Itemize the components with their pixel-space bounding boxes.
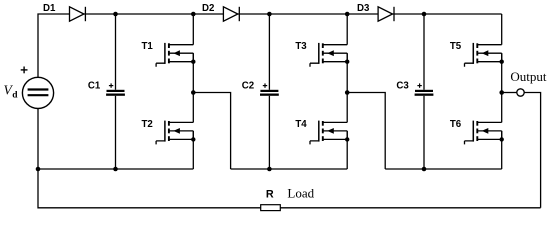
svg-text:T6: T6 xyxy=(450,119,462,130)
svg-text:C1: C1 xyxy=(88,81,101,92)
transistor T3 xyxy=(295,41,349,67)
junction C2 bottom xyxy=(267,167,272,172)
svg-text:C3: C3 xyxy=(396,81,409,92)
capacitor C2 xyxy=(242,81,279,96)
wire top rail to C2 xyxy=(268,14,270,90)
wire top rail to T1 drain xyxy=(192,14,194,45)
junction leg1 top xyxy=(191,12,196,17)
wire C3 to bottom rail xyxy=(423,96,425,169)
wire T5 source to midpoint to T6 drain xyxy=(501,53,503,122)
diode D2 xyxy=(202,3,239,21)
svg-text:D3: D3 xyxy=(357,3,370,14)
wire T6 source to bottom rail xyxy=(501,131,503,169)
wire C2 to bottom rail xyxy=(268,96,270,169)
svg-text:T2: T2 xyxy=(142,119,153,130)
wire rail1 down and along bottom to load resistor xyxy=(38,169,261,208)
svg-text:C2: C2 xyxy=(242,81,254,92)
wire T4 source to bottom rail xyxy=(346,131,348,169)
svg-text:d: d xyxy=(12,91,18,101)
wire T3 source to midpoint to T4 drain xyxy=(346,53,348,122)
wire D3 cathode along top rail to top-right corner xyxy=(393,13,502,15)
wire top rail to T5 drain xyxy=(501,14,503,45)
wire T2 source to bottom rail xyxy=(192,131,194,169)
transistor T1 xyxy=(142,41,196,67)
wire leg2 top to D3 anode xyxy=(347,13,378,15)
resistor R (load) xyxy=(261,188,281,210)
junction midpoint leg1 xyxy=(191,90,196,95)
wire leg1 top to D2 anode xyxy=(193,13,223,15)
wire load resistor to bottom-right corner xyxy=(280,207,540,209)
junction C2 top xyxy=(267,12,272,17)
transistor T6 xyxy=(450,119,504,145)
wire top rail to T3 drain xyxy=(346,14,348,45)
wire T1 source to midpoint to T2 drain xyxy=(192,53,194,122)
wire from Vd+ up to top rail and to D1 anode xyxy=(38,14,70,77)
capacitor C3 xyxy=(396,81,433,96)
wire D2 cathode along top rail to leg T3/T4 xyxy=(238,13,347,15)
wire output to right side down to load wire xyxy=(524,93,540,208)
capacitor C1 xyxy=(88,81,125,96)
svg-text:Load: Load xyxy=(287,186,314,201)
junction C3 bottom xyxy=(422,167,427,172)
junction C3 top xyxy=(422,12,427,17)
junction midpoint leg3 xyxy=(499,90,504,95)
wire bottom rail 2 xyxy=(231,168,348,170)
transistor T2 xyxy=(142,119,196,145)
junction leg2 top xyxy=(345,12,350,17)
output terminal xyxy=(517,89,524,96)
voltage source Vd xyxy=(4,67,54,109)
svg-text:T5: T5 xyxy=(450,41,462,52)
junction midpoint leg2 xyxy=(345,90,350,95)
wire midpoint1 to bottom rail 2 xyxy=(193,93,230,170)
diode D1 xyxy=(43,3,85,21)
wire Vd bottom to rail1 xyxy=(37,109,39,170)
wire top rail to C3 xyxy=(423,14,425,90)
svg-text:T3: T3 xyxy=(295,41,307,52)
svg-text:T1: T1 xyxy=(142,41,154,52)
wire top rail to C1 xyxy=(115,14,117,90)
wire D1 cathode along top rail to leg T1/T2 xyxy=(84,13,193,15)
diode D3 xyxy=(357,3,394,21)
svg-text:R: R xyxy=(266,188,274,200)
svg-text:D2: D2 xyxy=(202,3,214,14)
transistor T5 xyxy=(450,41,504,67)
junction C1 bottom xyxy=(113,167,118,172)
wire bottom rail 1 xyxy=(38,168,193,170)
wire bottom rail 3 xyxy=(385,168,502,170)
svg-text:T4: T4 xyxy=(295,119,307,130)
junction C1 top xyxy=(113,12,118,17)
svg-text:D1: D1 xyxy=(43,3,56,14)
wire midpoint2 to bottom rail 3 xyxy=(347,93,385,170)
svg-text:Output: Output xyxy=(510,69,547,84)
wire midpoint3 to output terminal xyxy=(502,92,517,94)
wire C1 to bottom rail xyxy=(115,96,117,169)
junction Vd leg / rail1 xyxy=(36,167,41,172)
transistor T4 xyxy=(295,119,349,145)
